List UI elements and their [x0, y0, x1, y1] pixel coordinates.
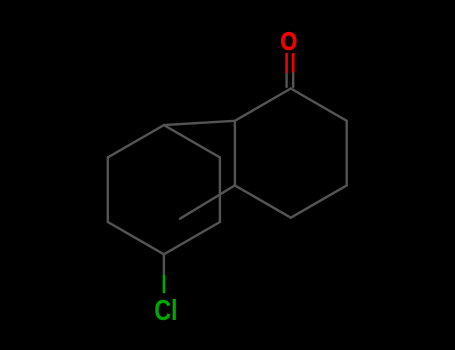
C-Cl bond gray half: [163, 254, 165, 276]
wire: right vertical side: [346, 121, 348, 186]
wire: left vertical side: [234, 121, 236, 186]
methyl stub from right-ring LL: [180, 185, 235, 218]
left ring hexagon: [108, 125, 164, 157]
wire: bottom-right diagonal: [291, 185, 347, 217]
right ring (cyclohexanone): [108, 72, 347, 277]
wire: apex to upper-right vertex: [291, 89, 347, 121]
wire: bottom-left diagonal: [235, 185, 291, 217]
inter-ring bond (phenyl top to right-ring UL): [164, 121, 235, 125]
svg-text:Cl: Cl: [154, 294, 177, 327]
svg-text:O: O: [280, 27, 297, 55]
C-Cl bond green half: [163, 276, 166, 292]
C=O double bond red halves: [287, 54, 294, 72]
C=O double bond gray halves: [285, 72, 287, 88]
wire: apex to upper-left vertex: [235, 89, 291, 121]
